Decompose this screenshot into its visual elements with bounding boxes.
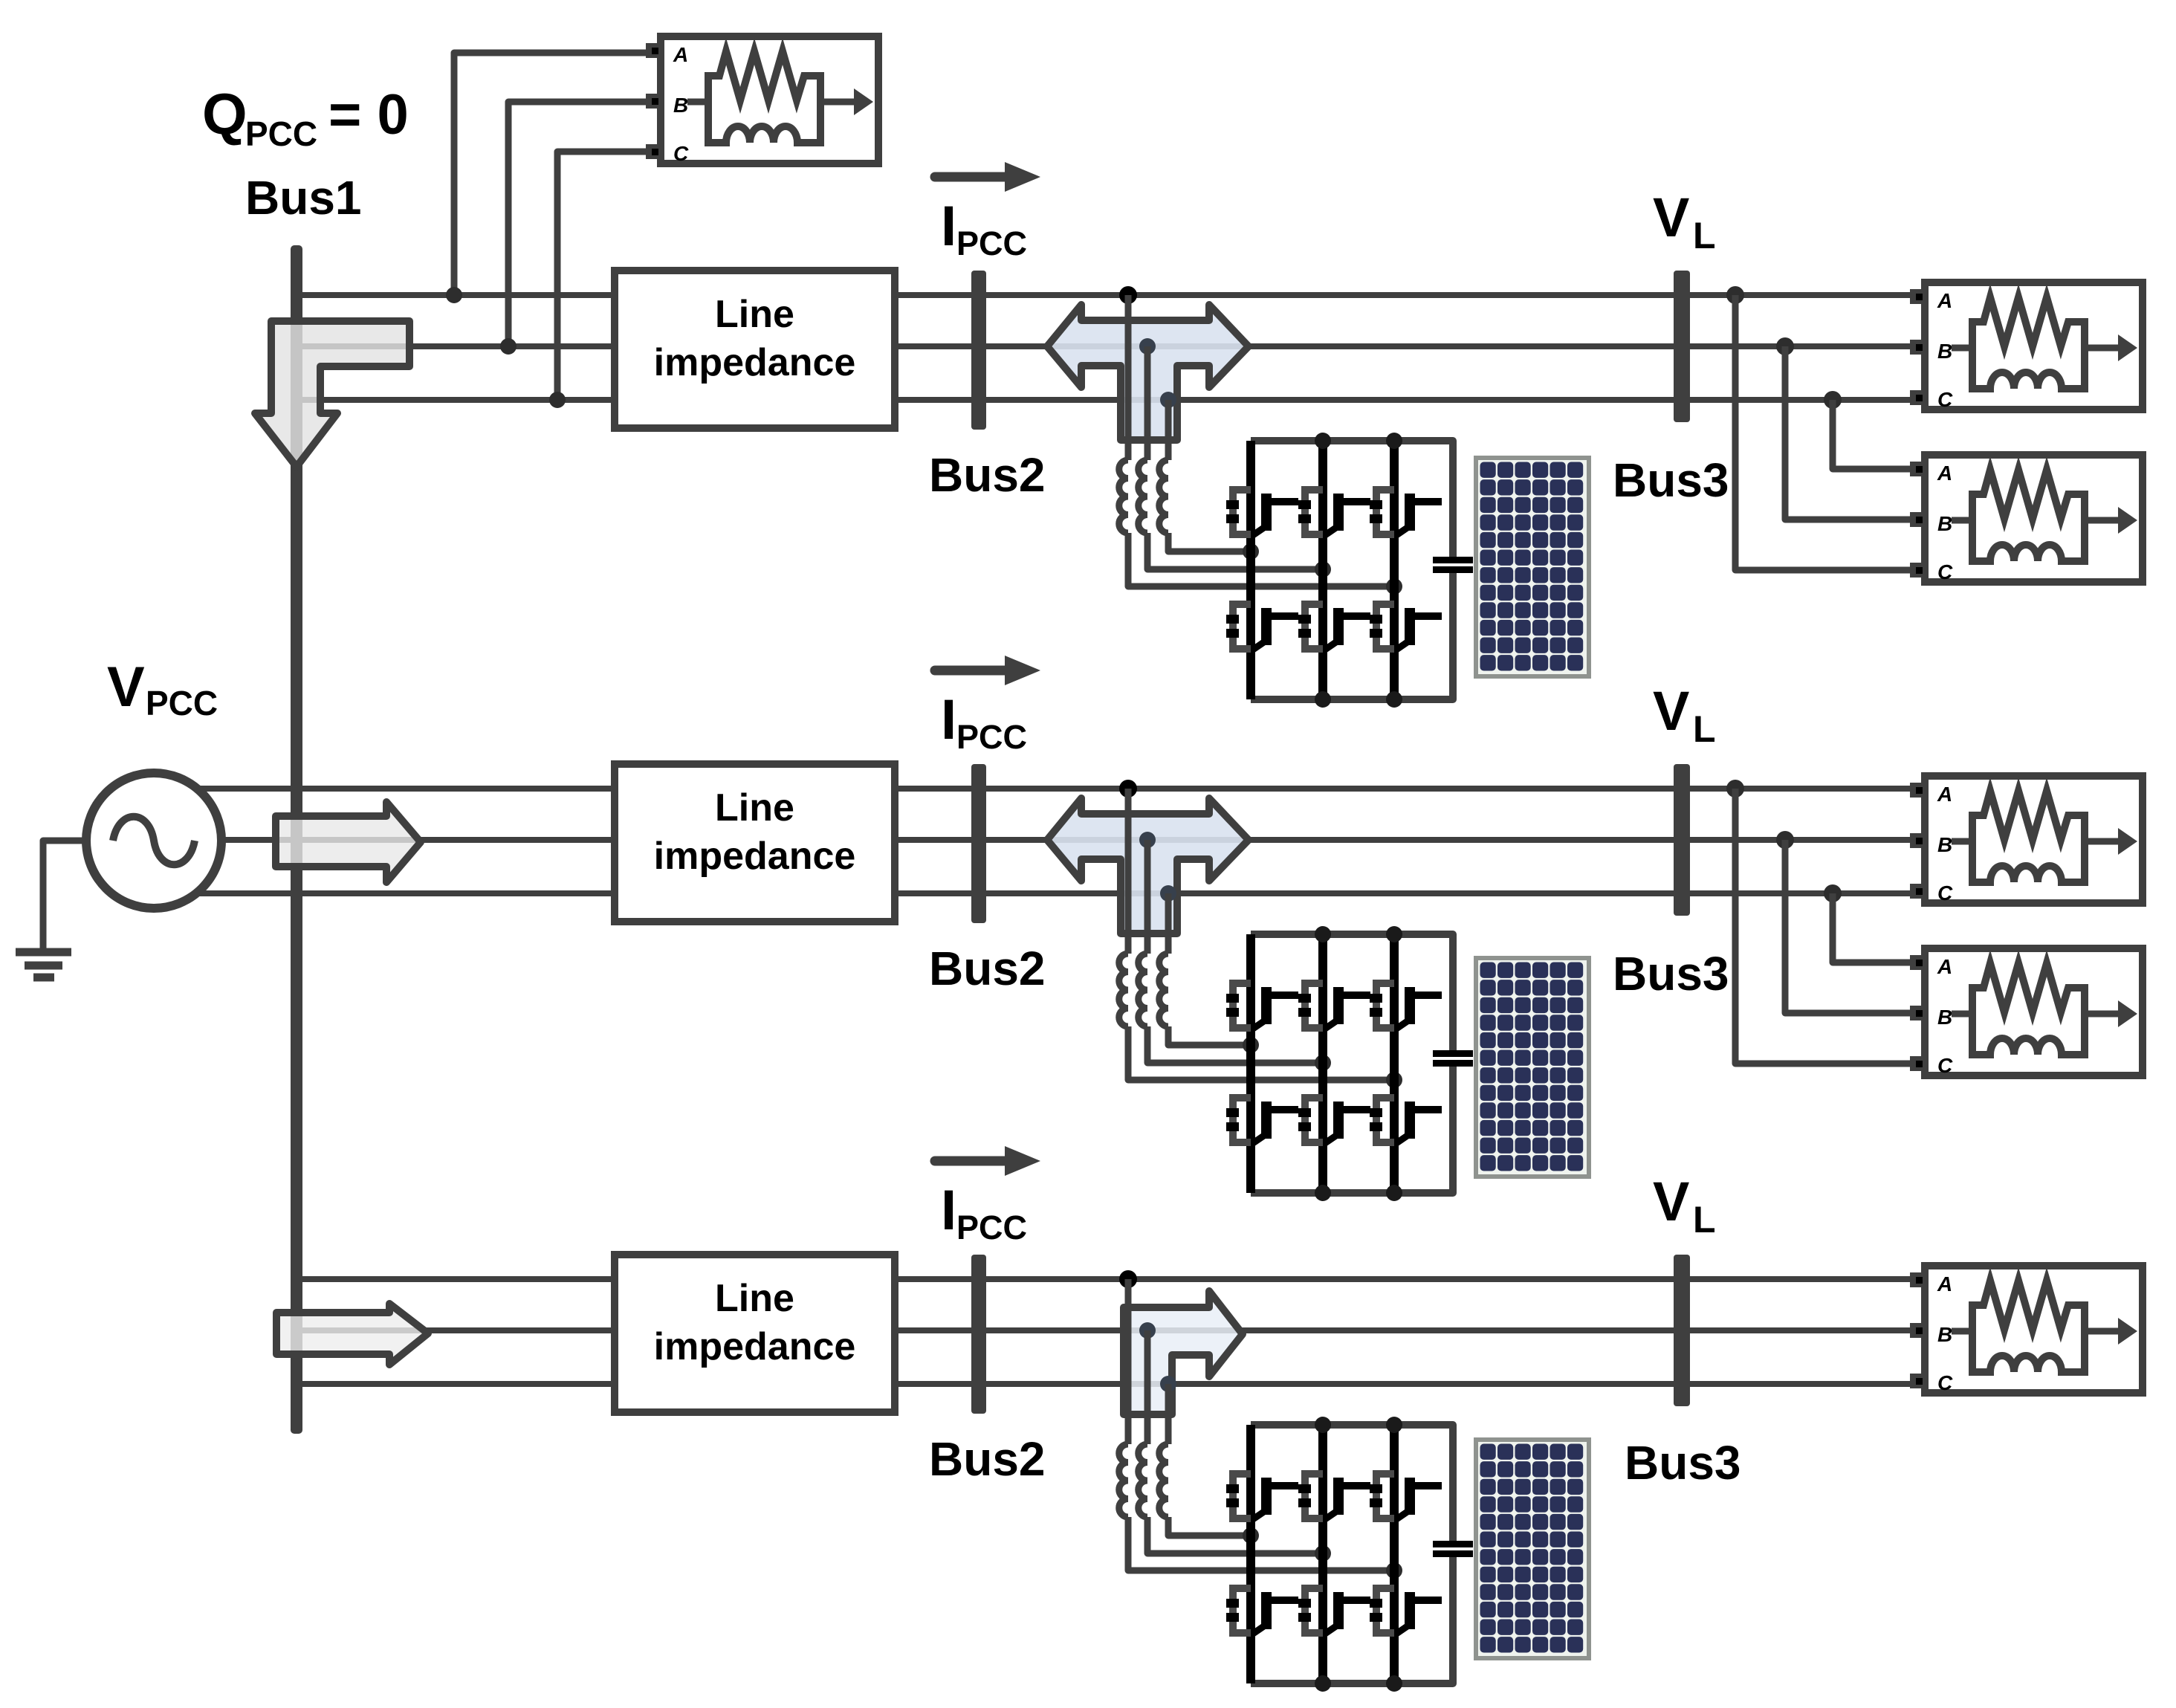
inductor filter L3 row2: [1159, 954, 1168, 1026]
wire source to ground: [43, 841, 86, 949]
junction line A to inverter row3: [1119, 1270, 1137, 1288]
svg-text:I: I: [941, 688, 956, 751]
inverter leg 1 row2: [1246, 934, 1255, 1193]
IGBT switch upper leg3 row1: [1370, 490, 1442, 535]
wire coil B to leg2 row1: [1147, 533, 1323, 569]
junction line A to inverter row2: [1119, 780, 1137, 798]
svg-text:PCC: PCC: [245, 114, 317, 153]
svg-text:PCC: PCC: [956, 224, 1027, 262]
node Bus3 bar row3: [1674, 1255, 1690, 1406]
svg-text:I: I: [941, 195, 956, 258]
current arrow IPCC row3: [935, 1146, 1040, 1176]
inductor filter L1 row2: [1119, 954, 1128, 1026]
inverter leg 1 row1: [1246, 441, 1255, 699]
inverter leg 3 row3: [1390, 1425, 1399, 1683]
wire phase C drop row3: [1165, 1384, 1172, 1444]
wire coil C to leg1 row1: [1168, 533, 1251, 551]
IGBT switch upper leg1 row1: [1226, 490, 1298, 535]
power-flow T arrow row2: [1047, 798, 1249, 934]
IGBT switch upper leg2 row1: [1298, 490, 1370, 535]
wire phase C drop row1: [1165, 400, 1172, 460]
wire phase A drop row1: [1125, 295, 1132, 460]
IGBT switch upper leg2 row2: [1298, 983, 1370, 1029]
wire tap C to load2 pin A row2: [1833, 893, 1911, 963]
wire coil C to leg1 row3: [1168, 1517, 1251, 1536]
wire tap B to load2 pin B row1: [1785, 346, 1911, 520]
IGBT switch lower leg1 row2: [1226, 1098, 1298, 1143]
node Bus3 bar row2: [1674, 764, 1690, 916]
power-flow arrow right at Bus1 row2: [276, 802, 421, 882]
wire three-phase line B row3: [301, 1327, 1911, 1333]
svg-text:Line: Line: [715, 293, 794, 336]
svg-text:Bus1: Bus1: [245, 171, 362, 224]
inductor filter L3 row3: [1159, 1444, 1168, 1517]
wire top load pin C to line C: [557, 152, 647, 400]
junction line B to inverter row3: [1139, 1322, 1156, 1339]
wire phase A drop row2: [1125, 789, 1132, 954]
wire phase B drop row3: [1144, 1330, 1151, 1444]
load block lower (R-L) row1: [1910, 455, 2143, 583]
power-flow bent arrow row3: [1124, 1291, 1243, 1414]
junction load tap A row1: [1726, 286, 1744, 304]
junction load tap C row2: [1824, 884, 1842, 902]
wire tap A to load2 pin C row1: [1735, 295, 1911, 570]
inductor filter L1 row3: [1119, 1444, 1128, 1517]
load block lower (R-L) row2: [1910, 948, 2143, 1077]
wire coil A to leg3 row2: [1128, 1026, 1394, 1080]
IGBT switch lower leg2 row3: [1298, 1588, 1370, 1634]
line impedance block row1: [615, 271, 895, 428]
wire three-phase line B row1: [301, 343, 1911, 349]
AC voltage source: [86, 773, 221, 908]
IGBT switch lower leg2 row1: [1298, 604, 1370, 650]
junction load tap C row1: [1824, 391, 1842, 409]
IGBT switch upper leg1 row3: [1226, 1474, 1298, 1519]
wire tap B to load2 pin B row2: [1785, 840, 1911, 1013]
wire coil A to leg3 row1: [1128, 533, 1394, 586]
junction line A to inverter row1: [1119, 286, 1137, 304]
DC-link capacitor row1: [1433, 557, 1473, 573]
node Bus3 bar row1: [1674, 271, 1690, 422]
line impedance block row3: [615, 1255, 895, 1412]
power-flow T arrow row1: [1047, 305, 1249, 440]
inductor filter L1 row1: [1119, 460, 1128, 533]
inductor filter L2 row3: [1139, 1444, 1147, 1517]
svg-text:PCC: PCC: [956, 718, 1027, 756]
IGBT switch lower leg3 row1: [1370, 604, 1442, 650]
inverter leg 3 row1: [1390, 441, 1399, 699]
node Bus2 bar row1: [971, 271, 986, 430]
wire three-phase line C row3: [301, 1381, 1911, 1387]
junction load tap A row2: [1726, 780, 1744, 798]
wire top load pin B to line B: [508, 102, 647, 346]
label VL row1: [1653, 187, 1716, 256]
node Bus1 bar: [291, 245, 302, 1434]
IGBT switch lower leg1 row1: [1226, 604, 1298, 650]
svg-text:= 0: = 0: [328, 83, 409, 146]
node Bus2 bar row2: [971, 764, 986, 923]
inverter leg 1 row3: [1246, 1425, 1255, 1683]
power-flow arrow right at Bus1 row3: [276, 1304, 428, 1365]
load block top (R-L): [646, 36, 878, 165]
label VL row2: [1653, 680, 1716, 750]
wire phase C drop row2: [1165, 893, 1172, 954]
DC-link capacitor row2: [1433, 1050, 1473, 1067]
inductor filter L2 row2: [1139, 954, 1147, 1026]
inverter bridge DC rails row2: [1251, 934, 1453, 1193]
svg-text:Bus3: Bus3: [1613, 947, 1729, 1000]
wire three-phase line C row1: [301, 397, 1911, 403]
wire phase B drop row2: [1144, 840, 1151, 954]
wire three-phase line A row3: [301, 1276, 1911, 1282]
svg-text:V: V: [1653, 680, 1689, 742]
junction load tap B row1: [1776, 337, 1794, 355]
wire three-phase line A row1: [301, 292, 1911, 298]
wire coil C to leg1 row2: [1168, 1026, 1251, 1045]
inverter bridge DC rails row1: [1251, 441, 1453, 699]
IGBT switch upper leg2 row3: [1298, 1474, 1370, 1519]
svg-text:Bus2: Bus2: [929, 1432, 1046, 1486]
junction line C to inverter row3: [1160, 1376, 1176, 1392]
label VL row3: [1653, 1171, 1716, 1240]
wire phase A drop row3: [1125, 1279, 1132, 1444]
svg-text:Bus2: Bus2: [929, 942, 1046, 995]
IGBT switch upper leg1 row2: [1226, 983, 1298, 1029]
inductor filter L3 row1: [1159, 460, 1168, 533]
load block upper (R-L) row1: [1910, 282, 2143, 411]
wire phase B drop row1: [1144, 346, 1151, 460]
PV solar panel row1: [1476, 458, 1589, 676]
inductor filter L2 row1: [1139, 460, 1147, 533]
IGBT switch lower leg3 row3: [1370, 1588, 1442, 1634]
inverter bridge DC rails row3: [1251, 1425, 1453, 1683]
load block row3 (R-L): [1910, 1266, 2143, 1394]
IGBT switch lower leg3 row2: [1370, 1098, 1442, 1143]
PV solar panel row2: [1476, 958, 1589, 1177]
inverter leg 2 row1: [1318, 441, 1327, 699]
inverter leg 3 row2: [1390, 934, 1399, 1193]
svg-text:L: L: [1693, 1199, 1716, 1240]
PV solar panel row3: [1476, 1440, 1589, 1658]
svg-text:Bus2: Bus2: [929, 448, 1046, 502]
power-flow arrow down at Bus1: [255, 321, 409, 467]
junction line B to inverter row1: [1139, 338, 1156, 355]
svg-text:I: I: [941, 1179, 956, 1242]
label VPCC: [107, 656, 218, 722]
svg-text:impedance: impedance: [654, 341, 856, 384]
DC-link capacitor row3: [1433, 1541, 1473, 1557]
inverter leg 2 row2: [1318, 934, 1327, 1193]
svg-text:Line: Line: [715, 786, 794, 829]
junction load tap B row2: [1776, 831, 1794, 849]
svg-text:impedance: impedance: [654, 1325, 856, 1368]
svg-text:PCC: PCC: [956, 1209, 1027, 1246]
junction line C to inverter row1: [1160, 392, 1176, 408]
IGBT switch upper leg3 row3: [1370, 1474, 1442, 1519]
svg-text:Line: Line: [715, 1277, 794, 1320]
svg-text:V: V: [107, 656, 145, 719]
IGBT switch lower leg1 row3: [1226, 1588, 1298, 1634]
wire coil A to leg3 row3: [1128, 1517, 1394, 1570]
wire coil B to leg2 row2: [1147, 1026, 1323, 1063]
load block upper (R-L) row2: [1910, 776, 2143, 905]
svg-text:Bus3: Bus3: [1613, 453, 1729, 507]
IGBT switch lower leg2 row2: [1298, 1098, 1370, 1143]
svg-text:PCC: PCC: [146, 684, 218, 722]
junction line B to inverter row2: [1139, 832, 1156, 848]
svg-text:V: V: [1653, 1171, 1689, 1232]
svg-text:Q: Q: [202, 81, 247, 146]
svg-text:L: L: [1693, 215, 1716, 256]
wire three-phase line C row2: [197, 890, 1911, 896]
node Bus2 bar row3: [971, 1255, 986, 1414]
svg-text:Bus3: Bus3: [1625, 1436, 1741, 1489]
label IPCC row3: [941, 1179, 1027, 1246]
ground: [16, 952, 71, 977]
junction line C to inverter row2: [1160, 885, 1176, 902]
current arrow IPCC row2: [935, 656, 1040, 685]
IGBT switch upper leg3 row2: [1370, 983, 1442, 1029]
label QPCC = 0: [202, 81, 409, 153]
svg-text:V: V: [1653, 187, 1689, 248]
wire tap C to load2 pin A row1: [1833, 400, 1911, 469]
label IPCC row1: [941, 195, 1027, 262]
wire tap A to load2 pin C row2: [1735, 789, 1911, 1064]
inverter leg 2 row3: [1318, 1425, 1327, 1683]
label IPCC row2: [941, 688, 1027, 756]
wire top load pin A to line A: [454, 53, 647, 295]
wire three-phase line A row2: [197, 786, 1911, 792]
current arrow IPCC row1: [935, 162, 1040, 192]
wire coil B to leg2 row3: [1147, 1517, 1323, 1553]
svg-text:impedance: impedance: [654, 835, 856, 878]
wire three-phase line B row2: [221, 837, 1911, 843]
line impedance block row2: [615, 764, 895, 922]
svg-text:L: L: [1693, 708, 1716, 750]
